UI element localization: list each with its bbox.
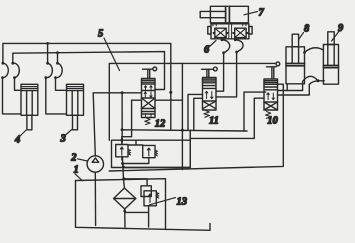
- label 7 leader: [244, 12, 258, 15]
- svg-text:10: 10: [267, 116, 278, 127]
- wire: net B second bus to valve 12 right port: [13, 52, 165, 90]
- svg-text:1: 1: [74, 165, 79, 176]
- node: junction relief drain: [121, 162, 124, 165]
- wire: net A top bus to cylinders 3,4 and valve 12: [3, 43, 171, 92]
- svg-text:2: 2: [70, 153, 77, 164]
- filter 13: [114, 188, 136, 209]
- valve block 6 (hydraulic locks): [208, 24, 252, 39]
- node: junction net B x57.5: [56, 51, 59, 54]
- svg-text:7: 7: [259, 7, 265, 18]
- relief valve box: [112, 140, 191, 167]
- box: panel 5 boundary wire into valve 10 top: [109, 63, 276, 140]
- label 6 leader: [210, 41, 217, 47]
- wire: bus under valve 12: [122, 130, 247, 131]
- wire: return elbow to pump line: [124, 130, 191, 167]
- cylinder 3: [67, 84, 84, 130]
- label 9 leader: [332, 32, 339, 42]
- node: junction pressure/main: [121, 91, 124, 94]
- wire: valve 10 right port 3: [278, 85, 310, 96]
- svg-text:4: 4: [14, 134, 20, 145]
- svg-text:9: 9: [338, 23, 344, 34]
- wire: link between relief valve tops: [128, 140, 143, 145]
- hose loop cylinder 4 line 2: [13, 63, 20, 77]
- svg-text:5: 5: [98, 29, 103, 40]
- wire: pump pressure line to valve 12: [93, 93, 141, 156]
- node: junction top arc: [303, 51, 306, 54]
- label 4 leader: [20, 130, 26, 136]
- wire: cylinder 8 bottom stub: [286, 84, 288, 91]
- valve 11 (directional control): [202, 67, 218, 117]
- hose arc from block 6 left: [222, 40, 230, 53]
- hose hop arc cylinder 8 to 9 bottom: [303, 76, 318, 81]
- label 2 leader: [78, 159, 88, 161]
- wire: relief box to bus: [189, 130, 191, 140]
- node: junction return/main: [122, 165, 125, 168]
- bypass valve of filter: [125, 186, 159, 227]
- svg-text:6: 6: [204, 45, 210, 56]
- node: junction relief pilot: [120, 139, 123, 142]
- wire: riser curve to cyl9 bottom link: [309, 81, 318, 85]
- cylinder 8: [286, 34, 305, 84]
- wire: valve 11 left port 1: [188, 94, 203, 129]
- hose arc cylinder 8 to 9 top: [305, 48, 324, 53]
- valve 10 (directional control): [264, 62, 280, 118]
- hose loop cylinder 3 line 1: [46, 63, 53, 77]
- svg-text:8: 8: [304, 24, 310, 35]
- wire: hose A to valve 11: [216, 53, 224, 91]
- wire: return line down right side to tank area: [109, 84, 283, 171]
- wire: cylinder 4 top port: [15, 78, 22, 91]
- node: hose dots: [1, 62, 59, 79]
- hose arc from block 6 right: [235, 40, 243, 52]
- wire: valve 11 left port 2: [194, 98, 203, 130]
- relief valve (right): [143, 145, 158, 157]
- tank box 1: [76, 179, 211, 231]
- wire: staircase valve 10 left 2: [190, 98, 264, 138]
- svg-text:12: 12: [155, 119, 166, 130]
- hose loop cylinder 3 line 2: [56, 63, 63, 78]
- node: junction valve 12 right: [169, 91, 172, 94]
- wire: hose B to valve 11: [216, 52, 237, 97]
- svg-text:3: 3: [60, 134, 66, 145]
- node: hose dots block 6: [221, 38, 239, 54]
- wire: net A descent to bus: [170, 92, 172, 129]
- cylinder 4: [21, 84, 38, 130]
- wire: valve 10 right port 2: [278, 82, 303, 91]
- relief valve (left): [116, 140, 131, 160]
- wire: hose 3 upper drop: [47, 43, 49, 63]
- wire: pump suction: [94, 172, 96, 225]
- wire: link to cylinder 9 bottom: [318, 80, 324, 82]
- label 5 leader: [104, 38, 120, 71]
- label 8 leader: [299, 33, 304, 40]
- label 3 leader: [66, 130, 72, 136]
- svg-text:13: 13: [177, 197, 188, 208]
- cylinder 9: [323, 32, 338, 84]
- node: junction net A x47.6: [46, 42, 49, 45]
- cylinder 7 (horizontal): [200, 6, 248, 26]
- valve 12 (directional control): [142, 67, 157, 125]
- node: junction filter branch: [122, 177, 125, 180]
- label 13 leader: [150, 198, 176, 205]
- node: junction bus/main: [121, 128, 124, 131]
- pump 2: [87, 156, 103, 172]
- wire: main vertical line (to relief, filter, tank): [121, 93, 123, 143]
- wire: bypass feed: [124, 179, 147, 186]
- wire: valve 12 right lower port: [155, 99, 182, 101]
- node: junction link: [317, 79, 320, 82]
- wire: cylinder 3 top port: [56, 78, 67, 91]
- node: junction bus/long vertical: [181, 129, 184, 132]
- wire: cylinder 3 bottom port: [46, 78, 67, 114]
- node: junction bypass drain: [123, 210, 126, 213]
- wire: staircase valve 10 left 1: [244, 92, 266, 131]
- wire: long vertical x182: [181, 63, 183, 169]
- hose loop cylinder 4 line 1: [3, 63, 9, 77]
- wire: valve 12 left lower port (Z-jog to relief pilot): [122, 100, 142, 140]
- wire: hose 4 upper drop: [57, 53, 59, 63]
- label 1 leader: [75, 174, 83, 181]
- wire: cylinder 4 bottom port: [3, 78, 22, 114]
- wire: relief 2 drain: [123, 158, 149, 164]
- svg-text:11: 11: [209, 116, 219, 127]
